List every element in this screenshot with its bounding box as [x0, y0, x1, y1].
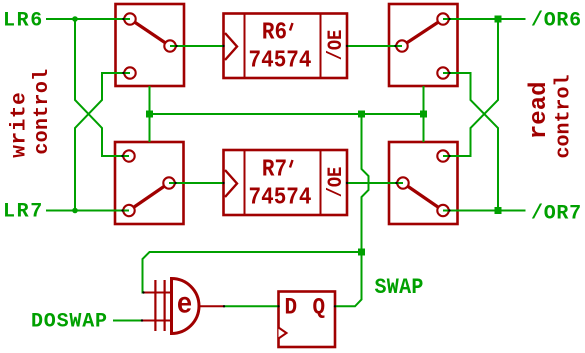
svg-text:74574: 74574 — [249, 46, 312, 74]
wire LR6 horizontal — [46, 18, 130, 20]
gate U1 (enable gate) body — [142, 279, 224, 334]
switch S1 contact circles — [124, 13, 175, 78]
pin connection dots — [121, 18, 450, 322]
svg-text:R6: R6 — [262, 18, 287, 46]
wire select vertical S1-S2 — [149, 86, 151, 142]
svg-text:/OE: /OE — [325, 167, 348, 198]
wire LR7 horizontal — [46, 210, 129, 212]
junction square select left — [146, 111, 153, 118]
svg-text:74574: 74574 — [249, 183, 312, 211]
wire gate output to flip-flop D — [224, 305, 279, 307]
svg-text:R7: R7 — [262, 155, 287, 183]
wire register R7 output to switch S4 — [347, 182, 403, 184]
junction square /OR6 — [495, 16, 502, 23]
switch S2 (lower left) body — [115, 142, 184, 224]
svg-text:SWAP: SWAP — [375, 275, 424, 300]
svg-text:LR7: LR7 — [3, 201, 44, 224]
svg-text:Q: Q — [313, 295, 326, 321]
wire S3 top contact to /OR6 — [443, 18, 526, 20]
svg-text:/OE: /OE — [325, 30, 348, 61]
switch S4 (lower right) body — [389, 142, 458, 224]
svg-text:LR6: LR6 — [3, 10, 44, 33]
junction square select right — [420, 111, 427, 118]
junction square /OR7 — [495, 207, 502, 214]
switch S3 contact circles — [396, 13, 448, 78]
svg-text:DOSWAP: DOSWAP — [31, 311, 108, 334]
wire S3 bottom contact to /OR7 (crossover right) — [443, 73, 498, 210]
junction dot LR6 — [72, 16, 78, 22]
register R7 74574 body — [224, 150, 348, 215]
wire SWAP feedback to gate — [143, 252, 362, 293]
svg-text:/OR7: /OR7 — [531, 203, 582, 226]
switch S2 contact circles — [123, 150, 174, 216]
wire LR6 to lower switch (crossover left) — [75, 19, 129, 156]
svg-text:/OR6: /OR6 — [531, 10, 582, 33]
svg-text:e: e — [177, 289, 193, 322]
svg-text:read: read — [526, 81, 553, 139]
wire switch S2 to register R7 input — [169, 182, 224, 184]
junction square select mid — [358, 111, 365, 118]
svg-text:control: control — [31, 69, 54, 155]
wire register R6 output to switch S3 — [347, 45, 402, 47]
register R6 74574 body — [224, 14, 348, 79]
flip-flop U2 body — [279, 292, 336, 348]
wire /OR7 horizontal — [443, 210, 526, 212]
switch S1 (upper left) body — [116, 4, 185, 86]
wire select vertical S3-S4 — [423, 86, 425, 142]
svg-text:write: write — [8, 92, 31, 158]
wire select bus horizontal — [150, 113, 424, 115]
wire /OR6 to lower-right switch (crossover right) — [443, 19, 498, 156]
wire switch S1 to register R6 input — [170, 45, 224, 47]
wire flip-flop Q to SWAP node — [335, 252, 362, 306]
svg-text:D: D — [285, 295, 298, 321]
junction dot LR7 — [72, 208, 78, 214]
wire DOSWAP to gate — [113, 320, 142, 322]
junction square SWAP — [358, 249, 365, 256]
switch S4 contact circles — [397, 150, 448, 216]
switch S3 (upper right) body — [389, 4, 458, 86]
wire SWAP vertical with jog — [362, 114, 369, 252]
wire upper switch bottom contact to LR7 (crossover left) — [75, 73, 130, 210]
svg-text:control: control — [553, 74, 576, 158]
